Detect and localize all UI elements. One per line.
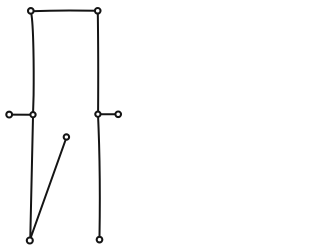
terminal top-left (28, 8, 34, 14)
blade pivot bottom-left (27, 238, 33, 244)
node right junction (95, 112, 100, 117)
wire right throw stub (98, 113, 118, 115)
terminal left (throw contact) (6, 112, 12, 118)
wire right pole upper segment (97, 13, 99, 112)
wire left pole lower segment (30, 117, 33, 237)
terminal right (throw contact) (115, 112, 121, 118)
wire top jumper between left and right poles (31, 10, 97, 13)
wire left pole upper segment (31, 13, 33, 112)
switch blade (movable contact arm) (31, 140, 66, 238)
blade tip contact (64, 134, 69, 139)
wire left throw stub (9, 114, 33, 116)
node left junction (30, 112, 35, 117)
terminal top-right (95, 8, 101, 14)
wire right pole lower segment (98, 117, 100, 236)
terminal bottom-right (97, 237, 103, 243)
